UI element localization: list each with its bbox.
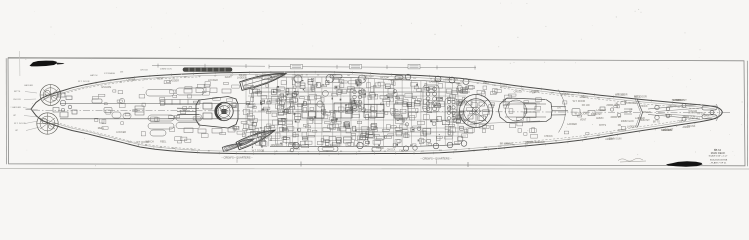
svg-text:UP: UP bbox=[532, 92, 536, 95]
svg-text:BITTS: BITTS bbox=[599, 124, 606, 127]
svg-text:136: 136 bbox=[191, 150, 194, 152]
svg-text:52: 52 bbox=[358, 151, 360, 153]
transverse bulkhead lines bbox=[246, 77, 458, 146]
svg-text:203: 203 bbox=[584, 137, 587, 139]
machinery casing band on centerline bbox=[302, 103, 408, 118]
svg-text:56: 56 bbox=[468, 148, 470, 150]
svg-text:CHOCK: CHOCK bbox=[127, 79, 136, 82]
svg-text:W.T. DOOR: W.T. DOOR bbox=[78, 81, 90, 83]
svg-text:ESCAPE: ESCAPE bbox=[102, 86, 112, 89]
svg-text:AMMO: AMMO bbox=[605, 138, 613, 141]
svg-text:UP: UP bbox=[13, 115, 17, 117]
svg-text:AMMO: AMMO bbox=[580, 96, 588, 99]
svg-text:32: 32 bbox=[555, 141, 557, 143]
faint scratch line left bbox=[19, 51, 21, 76]
svg-text:CHOCK: CHOCK bbox=[544, 135, 553, 138]
svg-text:LADDER: LADDER bbox=[12, 106, 21, 109]
svg-text:ESCAPE: ESCAPE bbox=[663, 129, 673, 132]
svg-text:VENT: VENT bbox=[157, 78, 164, 81]
darker equipment blocks midship bbox=[246, 79, 463, 145]
ship boat lower small 1 bbox=[222, 141, 243, 151]
svg-text:CHOCK: CHOCK bbox=[514, 91, 523, 94]
svg-text:CHOCK: CHOCK bbox=[140, 70, 148, 72]
svg-text:20MM GUN: 20MM GUN bbox=[683, 115, 696, 118]
svg-text:WINCH: WINCH bbox=[676, 99, 684, 102]
svg-text:44: 44 bbox=[477, 83, 479, 85]
svg-text:183: 183 bbox=[439, 150, 442, 152]
svg-text:DN: DN bbox=[120, 72, 124, 74]
svg-text:40MM MT: 40MM MT bbox=[610, 116, 621, 119]
svg-text:LOCKER: LOCKER bbox=[208, 79, 218, 82]
ship boat lower small 2 bbox=[239, 137, 254, 146]
svg-text:BITTS: BITTS bbox=[653, 121, 660, 124]
uptake gratings bbox=[350, 85, 457, 122]
hawse pipe slots bbox=[702, 106, 717, 119]
svg-text:CHOCK: CHOCK bbox=[639, 105, 648, 108]
degaussing cable dashed lines bbox=[60, 77, 700, 149]
svg-text:UP: UP bbox=[291, 77, 295, 80]
svg-text:159: 159 bbox=[454, 149, 457, 151]
svg-text:5 IN MT: 5 IN MT bbox=[688, 111, 697, 114]
ship boat lower (40ft motor launch) bbox=[236, 126, 277, 150]
svg-text:67: 67 bbox=[145, 145, 147, 147]
svg-text:AMMO: AMMO bbox=[506, 142, 514, 145]
svg-text:UP: UP bbox=[679, 120, 683, 123]
svg-text:167: 167 bbox=[413, 78, 416, 80]
5-inch mounts / gun tubs at deck edges bbox=[293, 74, 469, 151]
longitudinal passage lines bbox=[248, 88, 540, 136]
svg-text:REEL: REEL bbox=[294, 148, 301, 151]
svg-text:LADDER: LADDER bbox=[237, 77, 247, 80]
svg-text:67: 67 bbox=[226, 151, 228, 153]
frame number text rows bbox=[120, 75, 640, 154]
svg-text:DN: DN bbox=[557, 107, 561, 110]
svg-text:WINCH: WINCH bbox=[642, 111, 650, 114]
fore deck fittings bbox=[572, 107, 632, 117]
svg-text:20MM GUN: 20MM GUN bbox=[271, 144, 284, 147]
svg-text:- PLATE 7 OF 21: - PLATE 7 OF 21 bbox=[710, 161, 727, 164]
svg-text:AMMO: AMMO bbox=[562, 93, 570, 96]
svg-text:LADDER: LADDER bbox=[596, 109, 606, 112]
svg-text:BITTS: BITTS bbox=[14, 91, 21, 93]
svg-text:DAVIT: DAVIT bbox=[527, 141, 534, 144]
leader lines stern labels bbox=[23, 92, 40, 131]
svg-text:W.T. DOOR: W.T. DOOR bbox=[252, 149, 265, 152]
svg-text:40MM MT: 40MM MT bbox=[591, 113, 602, 116]
svg-text:W.T. DOOR: W.T. DOOR bbox=[14, 123, 26, 125]
svg-text:89: 89 bbox=[384, 151, 386, 153]
svg-text:WINCH: WINCH bbox=[146, 140, 154, 143]
svg-text:CHOCK: CHOCK bbox=[387, 149, 396, 152]
svg-text:VENT: VENT bbox=[580, 118, 587, 121]
svg-text:57: 57 bbox=[568, 139, 570, 141]
turret 3 with barbette bbox=[177, 97, 238, 129]
svg-text:S506-3509-58726B: S506-3509-58726B bbox=[710, 160, 728, 162]
title block text bbox=[709, 148, 728, 164]
svg-text:W.T. DOOR: W.T. DOOR bbox=[634, 95, 647, 98]
svg-text:FR 100: FR 100 bbox=[582, 104, 591, 107]
stern 40mm gun tub lower bbox=[37, 113, 58, 134]
ship centerline (dash-dot) bbox=[33, 110, 722, 112]
compartment grid texture (midship) bbox=[92, 78, 626, 148]
svg-text:83: 83 bbox=[340, 151, 342, 153]
svg-text:37: 37 bbox=[214, 76, 216, 78]
stern flagstaff bbox=[26, 108, 32, 110]
windlass capstans bbox=[655, 104, 686, 122]
svg-text:40MM MT: 40MM MT bbox=[639, 119, 650, 122]
svg-text:DN: DN bbox=[618, 124, 622, 127]
anchor chains bbox=[648, 105, 702, 120]
svg-text:LADDER: LADDER bbox=[24, 84, 33, 87]
stowed boat / skid at deck edge bbox=[183, 68, 232, 72]
svg-text:DAVIT: DAVIT bbox=[704, 115, 711, 118]
turret 1 training arc bbox=[558, 90, 565, 133]
svg-text:LOCKER: LOCKER bbox=[116, 131, 126, 134]
svg-text:129: 129 bbox=[287, 151, 290, 153]
svg-text:142: 142 bbox=[347, 75, 350, 77]
svg-text:TRUNK: TRUNK bbox=[364, 75, 373, 78]
svg-text:200: 200 bbox=[610, 133, 613, 135]
fold tick marks on bottom border bbox=[301, 162, 468, 168]
sheet border frame bbox=[6, 57, 747, 166]
svg-text:DAVIT: DAVIT bbox=[225, 76, 232, 79]
redaction blob bottom-right bbox=[666, 161, 703, 167]
svg-text:FR 100: FR 100 bbox=[617, 93, 626, 96]
svg-text:REEL: REEL bbox=[483, 82, 490, 85]
svg-text:45: 45 bbox=[208, 150, 210, 152]
svg-text:W.T. DOOR: W.T. DOOR bbox=[575, 112, 588, 115]
redaction blob top-left bbox=[30, 61, 58, 67]
svg-text:REEL: REEL bbox=[160, 140, 167, 143]
svg-text:BITTS: BITTS bbox=[500, 85, 507, 88]
svg-text:5 IN MT: 5 IN MT bbox=[295, 74, 304, 77]
turret 1 with guns forward bbox=[499, 98, 569, 123]
frame tick marks along deck edges bbox=[96, 71, 695, 155]
caption: aft deck label bbox=[221, 155, 253, 162]
svg-text:133: 133 bbox=[492, 85, 495, 87]
superstructure deckhouse outline bbox=[60, 77, 470, 147]
svg-text:SCALE 1/16″ = 1′-0″: SCALE 1/16″ = 1′-0″ bbox=[709, 154, 728, 157]
svg-text:50: 50 bbox=[317, 75, 319, 77]
svg-text:LADDER: LADDER bbox=[429, 80, 439, 83]
svg-text:LADDER: LADDER bbox=[567, 123, 577, 126]
svg-text:DN: DN bbox=[262, 73, 266, 76]
ship boat upper (40ft motor launch) bbox=[240, 69, 288, 91]
svg-text:20MM GUN: 20MM GUN bbox=[606, 104, 619, 107]
svg-text:LADDER: LADDER bbox=[535, 141, 545, 144]
dimension line above hull with frame labels bbox=[152, 64, 476, 70]
svg-text:CHOCK: CHOCK bbox=[618, 129, 627, 132]
tiny scattered texts along hull bbox=[98, 73, 711, 152]
svg-text:20MM GUN: 20MM GUN bbox=[621, 120, 634, 123]
breakwater bbox=[637, 99, 643, 128]
svg-text:WINCH: WINCH bbox=[253, 77, 261, 80]
svg-text:136: 136 bbox=[484, 147, 487, 149]
svg-text:VENT: VENT bbox=[456, 83, 463, 86]
svg-text:100: 100 bbox=[498, 146, 501, 148]
svg-text:UP: UP bbox=[15, 130, 19, 132]
winches and small machinery circles bbox=[250, 85, 462, 145]
svg-text:36: 36 bbox=[244, 151, 246, 153]
svg-text:HATCH: HATCH bbox=[90, 74, 98, 77]
svg-text:WINCH: WINCH bbox=[668, 105, 676, 108]
bow inner arc bbox=[716, 104, 720, 121]
svg-text:− CREW’S • QUARTERS −: − CREW’S • QUARTERS − bbox=[221, 155, 253, 159]
inner deck line top bbox=[42, 74, 716, 109]
svg-text:TRUNK: TRUNK bbox=[687, 125, 696, 128]
svg-text:20MM GUN: 20MM GUN bbox=[445, 78, 458, 81]
svg-text:40MM MT: 40MM MT bbox=[229, 146, 240, 149]
svg-text:LADDER: LADDER bbox=[627, 126, 637, 129]
svg-text:HATCH: HATCH bbox=[389, 79, 397, 82]
svg-text:154: 154 bbox=[172, 148, 175, 150]
svg-text:W.T. DOOR: W.T. DOOR bbox=[573, 100, 586, 103]
svg-text:BITTS: BITTS bbox=[665, 114, 672, 117]
svg-text:STOWAGE: STOWAGE bbox=[624, 102, 636, 105]
svg-text:TRUNK: TRUNK bbox=[376, 147, 385, 150]
svg-text:149: 149 bbox=[274, 151, 277, 153]
svg-text:AMMO: AMMO bbox=[596, 117, 604, 120]
svg-text:87: 87 bbox=[306, 75, 308, 77]
turret 2 barbette bbox=[460, 95, 493, 128]
liferaft racks in side strips bbox=[262, 75, 417, 152]
stern 40mm gun tub upper bbox=[40, 85, 61, 106]
svg-text:HATCH: HATCH bbox=[380, 77, 388, 80]
scan speckle bbox=[10, 3, 742, 167]
svg-text:53: 53 bbox=[160, 147, 162, 149]
inner deck line bottom bbox=[42, 116, 716, 152]
svg-text:40MM MT: 40MM MT bbox=[264, 77, 275, 80]
svg-text:138: 138 bbox=[597, 135, 600, 137]
tiny annotation texts bbox=[12, 69, 172, 133]
svg-text:207: 207 bbox=[128, 141, 131, 143]
svg-text:MAIN DECK: MAIN DECK bbox=[711, 151, 726, 155]
svg-text:STOWAGE: STOWAGE bbox=[104, 72, 116, 75]
deck fittings around turret 3 bbox=[184, 88, 235, 134]
svg-text:UP: UP bbox=[629, 108, 633, 111]
pencil scribble left of blob bbox=[618, 158, 646, 162]
small fittings near stern tubs bbox=[58, 93, 77, 117]
svg-text:LADDER: LADDER bbox=[169, 80, 179, 83]
svg-text:20MM GUN: 20MM GUN bbox=[160, 69, 172, 71]
svg-text:CHOCK: CHOCK bbox=[13, 99, 21, 101]
svg-text:56: 56 bbox=[307, 151, 309, 153]
svg-text:− CREW’S • QUARTERS −: − CREW’S • QUARTERS − bbox=[420, 156, 452, 160]
hull outline (main deck edge) bbox=[31, 72, 722, 154]
caption: second label bbox=[420, 156, 452, 163]
small dark hatches bbox=[252, 79, 451, 149]
svg-text:REEL: REEL bbox=[98, 127, 105, 130]
sheet bottom edge line bbox=[0, 168, 749, 170]
quarterdeck fittings bbox=[92, 88, 204, 136]
svg-text:177: 177 bbox=[421, 151, 424, 153]
svg-text:CHOCK: CHOCK bbox=[399, 149, 408, 152]
bow centerline stub bbox=[722, 112, 730, 114]
centerline fitting between tubs bbox=[53, 108, 65, 113]
